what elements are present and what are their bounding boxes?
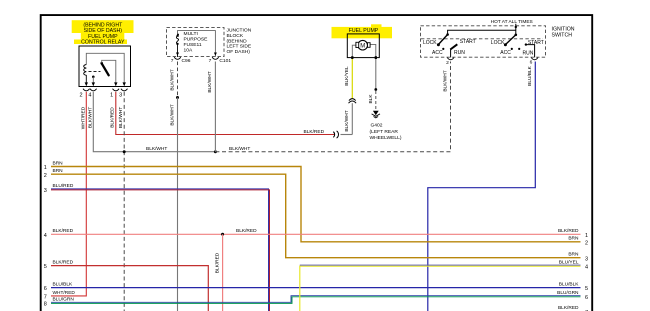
junction dot pin3/pin4 wires [123,150,126,153]
svg-text:BLK/RED: BLK/RED [236,228,257,234]
wire 4 BLK/RED left to right side 1 [44,228,588,239]
svg-text:WHT/RED: WHT/RED [80,106,86,129]
svg-text:M: M [360,44,365,50]
svg-text:1: 1 [110,93,113,99]
svg-text:BLK/RED: BLK/RED [558,228,579,234]
svg-text:8: 8 [44,301,47,307]
svg-text:BLK/RED: BLK/RED [558,305,579,311]
svg-text:4: 4 [44,233,47,239]
hot at all times label [491,19,533,25]
ignition switch dashed box [421,26,546,57]
svg-text:BLK/WHT: BLK/WHT [229,146,250,152]
svg-text:RUN: RUN [523,50,534,56]
dashed BLK/WHT run from junction to ignition switch pin2 wire [215,62,450,152]
svg-text:4: 4 [585,264,588,270]
ignition switch right gang arm [504,35,516,47]
svg-text:WHEELWELL): WHEELWELL) [370,135,402,141]
fuel pump control relay yellow highlight label [72,20,134,46]
ignition switch label [552,27,575,39]
svg-text:6: 6 [44,286,47,292]
svg-text:2: 2 [79,93,82,99]
relay pin connector cups [83,89,128,91]
svg-text:START: START [460,39,476,45]
junction dot C101 wire joins BLK/WHT run [214,150,217,153]
relay wire labels WHT/RED BLK/WHT BLK/RED BLK/WHT [80,106,124,129]
svg-text:6: 6 [530,59,533,65]
svg-text:10A: 10A [184,47,193,53]
svg-text:JUNCTION: JUNCTION [227,28,252,34]
svg-text:SWITCH: SWITCH [552,33,573,39]
svg-text:C101: C101 [219,58,231,64]
fuel pump control relay box [79,46,131,87]
fuel pump terminal pins [351,56,377,59]
svg-text:RUN: RUN [454,50,465,56]
wire 4 branch BLK/RED down off page [214,233,224,311]
inline connector on fuel pump feed wire [349,99,357,104]
svg-text:BLK/RED: BLK/RED [110,107,116,128]
svg-text:BLU/BLK: BLU/BLK [53,282,74,288]
svg-text:BLK/RED: BLK/RED [304,129,325,135]
junction block internal wire fuse feed to C101 [178,31,217,57]
svg-text:(LEFT REAR: (LEFT REAR [370,129,399,135]
svg-text:BRN: BRN [53,168,64,174]
svg-text:6: 6 [585,295,588,301]
svg-text:7: 7 [44,295,47,301]
ignition switch right gang position labels [490,39,544,56]
junction block label [227,28,252,56]
svg-text:MULTI: MULTI [184,31,198,37]
wire BLK/RED from relay pin1 down then right to connector [116,92,335,135]
svg-text:PURPOSE: PURPOSE [184,37,209,43]
svg-text:BLU/YEL: BLU/YEL [559,259,579,265]
svg-text:7: 7 [171,58,174,64]
svg-text:LOCK: LOCK [491,40,505,46]
svg-text:BLK/WHT: BLK/WHT [344,110,350,131]
svg-text:BLK/WHT: BLK/WHT [169,104,175,125]
ignition switch left gang contacts [442,44,457,57]
ground G402 [370,111,402,141]
ignition switch feed wire [446,24,517,36]
svg-text:BRN: BRN [568,252,579,258]
junction block dashed box [167,28,225,57]
relay switch contact and fixed path to pin1 [100,60,115,82]
ignition switch pin 6 connector [530,58,538,66]
wire 8 BLU/GRN left to right side 6 [44,290,588,308]
svg-text:BRN: BRN [53,160,64,166]
svg-text:ACC: ACC [432,50,443,56]
svg-text:BLK/WHT: BLK/WHT [118,107,124,128]
BLK/WHT label on ignition pin2 wire [442,70,448,91]
fuel pump internal wires [352,44,376,56]
svg-text:BLU/GRN: BLU/GRN [53,297,75,303]
wire BLU/YEL right side 4 from off page [300,259,588,311]
svg-text:WHT/RED: WHT/RED [53,290,76,296]
svg-text:BLOCK: BLOCK [227,33,244,39]
relay switch arm [102,64,109,76]
wire BLK/RED right side 7 label at page bottom [558,305,588,311]
wire BLK/WHT from C96 dashed then solid to page bottom [169,62,179,311]
wire 6 BLU/BLK left to right side 5 [44,282,588,293]
svg-text:C96: C96 [182,58,191,64]
wire BLK from fuel pump to ground [368,59,377,110]
svg-text:3: 3 [585,256,588,262]
svg-text:2: 2 [44,173,47,179]
wire BLK/WHT dashed from relay pin3 down to page bottom [123,92,125,311]
ignition switch left gang position labels [422,39,475,56]
svg-text:BLK/WHT: BLK/WHT [146,146,167,152]
relay actuator dashed link [89,70,101,72]
wire 7 WHT/RED left to relay pin2 [44,290,76,301]
svg-text:ACC: ACC [500,50,511,56]
wire BLK/YEL from fuel pump [344,59,352,99]
svg-text:5: 5 [44,264,47,270]
wire WHT/RED from relay pin2 down and left to wire 7 [51,92,86,296]
fuel pump box [347,34,379,58]
relay pin4 stub with pivot dot [92,76,95,83]
svg-text:7: 7 [209,58,212,64]
svg-text:OF DASH): OF DASH) [227,49,251,55]
svg-text:BLU/RED: BLU/RED [53,183,74,189]
svg-text:BLK/YEL: BLK/YEL [344,66,350,86]
fuse 11 symbol [176,34,179,58]
inline connector on BLK/RED wire [333,131,352,138]
wire 5 BLK/RED left down off page [44,260,209,311]
fuse label MULTI PURPOSE FUSE11 10A [184,31,209,53]
wire BLK/WHT from relay pin4 down then right [93,92,215,152]
svg-text:BLU/BLK: BLU/BLK [559,282,580,288]
svg-text:BLK: BLK [368,94,374,104]
fuel pump motor M [356,40,370,50]
relay coil branch wire (pin2 to pin3 rail) [86,53,124,82]
wire 1 BRN left to right side 2 [44,160,588,246]
svg-text:1: 1 [585,233,588,239]
relay coil [84,65,87,83]
relay pin exit arrows [85,82,126,86]
svg-text:FUEL PUMP: FUEL PUMP [349,28,379,34]
connector C101 [209,57,232,64]
wire 3 BLU/RED left down off page [44,183,270,311]
fuel pump yellow highlight label [332,24,393,38]
svg-text:HOT AT ALL TIMES: HOT AT ALL TIMES [491,19,533,25]
wire BLU/BLK from ignition pin 6 [428,62,536,311]
svg-text:BLK/WHT: BLK/WHT [207,71,213,92]
svg-text:CONTROL RELAY: CONTROL RELAY [81,40,125,46]
svg-text:2: 2 [585,240,588,246]
svg-text:FUSE11: FUSE11 [184,42,202,48]
svg-text:5: 5 [585,286,588,292]
svg-text:LEFT SIDE: LEFT SIDE [227,44,252,50]
relay pin numbers 2 4 1 3 [79,93,122,99]
svg-text:2: 2 [446,60,449,66]
ignition switch left gang arm [437,35,448,47]
BLK/WHT label on horizontal run [146,146,167,152]
svg-text:1: 1 [44,165,47,171]
svg-text:3: 3 [119,93,122,99]
svg-text:BRN: BRN [568,236,579,242]
svg-text:BLK/RED: BLK/RED [53,228,74,234]
wire BLK/WHT from C101 down to junction [207,62,215,152]
svg-text:BLK/WHT: BLK/WHT [442,70,448,91]
svg-text:BLK/RED: BLK/RED [53,260,74,266]
svg-text:LOCK: LOCK [423,40,437,46]
svg-text:3: 3 [44,188,47,194]
svg-text:4: 4 [88,93,91,99]
ignition switch mechanical dashed link [421,38,543,40]
svg-text:BLU/GRN: BLU/GRN [557,290,579,296]
ignition switch pin 2 connector [446,58,454,66]
ignition switch right gang contacts [511,43,535,57]
svg-text:BLU/BLK: BLU/BLK [527,65,533,86]
svg-text:G402: G402 [371,123,383,129]
wire BLK/WHT below connector to BLK/RED run [344,103,352,134]
wire 2 BRN left to right side 3 [44,168,588,262]
svg-text:(BEHIND: (BEHIND [227,38,248,44]
svg-text:BLK/WHT: BLK/WHT [169,69,175,90]
svg-text:BLK/RED: BLK/RED [214,252,220,273]
connector C96 [171,57,191,64]
svg-text:BLK/WHT: BLK/WHT [87,107,93,128]
